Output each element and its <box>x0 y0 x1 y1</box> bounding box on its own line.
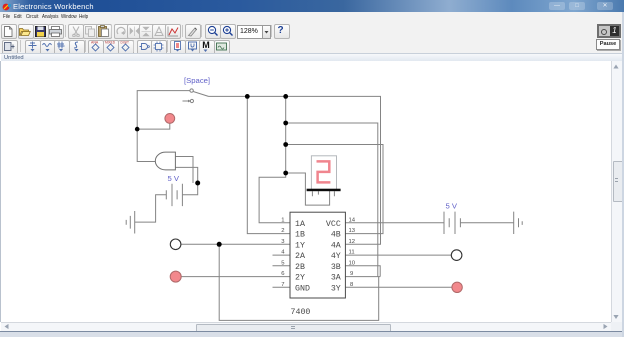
svg-text:1Y: 1Y <box>295 241 305 250</box>
svg-text:5 V: 5 V <box>446 202 458 211</box>
svg-text:7: 7 <box>281 282 284 288</box>
svg-text:13: 13 <box>349 228 356 234</box>
svg-text:1: 1 <box>281 217 284 223</box>
svg-text:9: 9 <box>350 271 353 277</box>
svg-text:GND: GND <box>295 284 310 293</box>
svg-text:4B: 4B <box>331 231 341 240</box>
svg-text:4Y: 4Y <box>331 252 341 261</box>
svg-text:[Space]: [Space] <box>184 76 210 85</box>
svg-text:3A: 3A <box>331 274 341 283</box>
svg-text:3B: 3B <box>331 263 341 272</box>
svg-text:12: 12 <box>349 239 356 245</box>
svg-text:3Y: 3Y <box>331 284 341 293</box>
svg-text:7400: 7400 <box>291 308 311 317</box>
svg-text:4A: 4A <box>331 241 341 250</box>
svg-text:14: 14 <box>349 217 356 223</box>
svg-text:2A: 2A <box>295 252 305 261</box>
svg-text:5 V: 5 V <box>168 174 180 183</box>
svg-text:VCC: VCC <box>326 220 341 229</box>
svg-text:2: 2 <box>281 228 284 234</box>
svg-text:2B: 2B <box>295 263 305 272</box>
svg-text:11: 11 <box>349 250 355 256</box>
svg-text:10: 10 <box>349 260 356 266</box>
svg-text:2Y: 2Y <box>295 274 305 283</box>
svg-text:1B: 1B <box>295 231 305 240</box>
svg-text:1A: 1A <box>295 220 305 229</box>
